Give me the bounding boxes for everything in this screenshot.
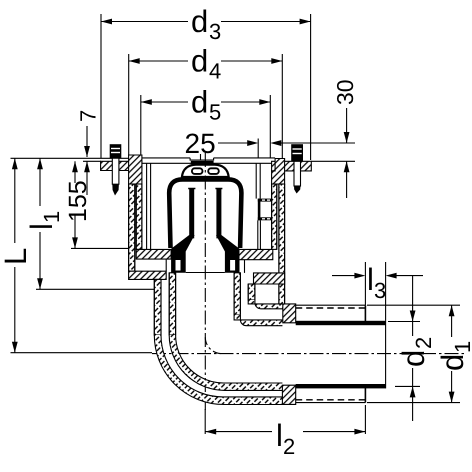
screw right tip — [294, 186, 301, 194]
svg-text:2: 2 — [283, 434, 295, 459]
svg-text:l: l — [24, 223, 59, 230]
dim l1 vertical — [39, 158, 41, 206]
screw left tip — [112, 184, 119, 196]
dim 155 bottom extension — [71, 247, 131, 249]
standpipe left wall — [189, 188, 194, 238]
outlet pipe bottom wall thick — [296, 384, 386, 388]
pot wall right outer channel — [279, 184, 285, 305]
bottom flange left (hatched) — [129, 271, 167, 279]
dim d4 line — [129, 60, 188, 62]
svg-text:4: 4 — [209, 59, 221, 84]
bottom hatch block — [282, 385, 295, 404]
pot wall right skirt channel — [272, 184, 277, 249]
dome base line — [182, 177, 229, 181]
bucket wall right upper — [255, 163, 257, 198]
funnel right black — [216, 235, 240, 273]
label d4 — [191, 44, 221, 84]
dim L bottom extension — [11, 352, 153, 354]
dim d3 line — [101, 21, 188, 23]
bucket wall left — [146, 163, 148, 249]
dim 30 vertical line with outside arrows — [346, 108, 348, 143]
dim d4 extension left — [128, 54, 130, 155]
top reference line — [11, 157, 142, 159]
shelf left (hatched) — [136, 249, 171, 259]
outer tube right wall — [248, 284, 255, 300]
centerline elbow arc — [205, 337, 221, 353]
dim d5 line — [141, 101, 188, 103]
sleeve top wall — [296, 304, 366, 306]
svg-text:2: 2 — [411, 337, 436, 349]
pot wall top left (hatched block) — [129, 155, 142, 184]
svg-text:155: 155 — [64, 180, 92, 222]
label d2 — [396, 337, 436, 367]
screw left shank — [112, 158, 119, 184]
dim 30 label — [332, 79, 358, 105]
screw right head — [291, 144, 303, 161]
bracket right wall — [258, 199, 272, 202]
inner pipe right wall corner — [234, 315, 282, 326]
svg-text:l: l — [276, 418, 283, 453]
svg-text:30: 30 — [332, 79, 358, 105]
top hatch block — [283, 304, 296, 323]
svg-text:l: l — [367, 262, 374, 297]
outer tube left wall — [154, 279, 161, 335]
funnel right notch — [230, 260, 235, 271]
outlet pipe top wall thick — [296, 321, 386, 325]
svg-text:d: d — [191, 44, 208, 79]
label l2 — [276, 418, 295, 459]
label l3 — [367, 262, 386, 303]
bell outer shell — [169, 179, 241, 248]
bell dome cap — [182, 165, 229, 177]
screw left head — [110, 144, 122, 158]
inner tail pipe right wall — [234, 273, 240, 315]
svg-text:7: 7 — [76, 110, 101, 122]
outer shell elbow wall (annulus) — [154, 335, 282, 405]
grate underside line — [142, 162, 272, 164]
funnel left black — [171, 235, 195, 273]
dim d3 extension left — [100, 14, 102, 158]
svg-text:3: 3 — [374, 278, 386, 303]
dim L vertical — [14, 158, 16, 243]
dim 7 line with outside arrows — [86, 126, 88, 157]
sleeve bottom wall — [296, 402, 366, 404]
grate notch center bar — [190, 158, 214, 160]
seat walls below shelf right — [235, 260, 237, 273]
pot wall top right (hatched block) — [272, 159, 285, 185]
flange plate left (hatched) — [101, 161, 142, 170]
inner tail pipe left wall — [169, 273, 175, 335]
shelf right (hatched) — [237, 249, 273, 259]
inner pipe elbow wall (annulus) — [169, 335, 282, 390]
dim l2 line inside arrows — [205, 431, 272, 433]
flange plate right (hatched) — [272, 161, 312, 171]
svg-text:d: d — [191, 4, 208, 39]
standpipe right wall — [216, 188, 221, 238]
bucket wall right lower — [257, 220, 259, 249]
dim l2 extensions — [204, 409, 206, 434]
vertical centerline — [204, 153, 206, 410]
dim d5 extension left — [140, 95, 142, 158]
svg-text:d: d — [435, 354, 470, 371]
outlet top wall B — [248, 300, 283, 309]
funnel left notch — [176, 260, 181, 271]
dim 25 leader to notch — [200, 154, 202, 160]
svg-text:d: d — [191, 85, 208, 120]
svg-text:3: 3 — [209, 19, 221, 44]
dim d3 extension right — [310, 14, 312, 160]
tail pipe seat line — [186, 272, 225, 274]
dim d2 extensions — [388, 321, 420, 323]
dim 155 vertical — [74, 161, 76, 183]
label d1 — [435, 341, 472, 371]
dim l3 extension lines — [364, 262, 366, 305]
dim d2 vertical with outside arrows — [412, 276, 414, 336]
label l1 — [24, 211, 64, 230]
label d3 — [191, 4, 221, 44]
dim 7 label — [76, 110, 101, 122]
horizontal centerline — [152, 353, 467, 355]
svg-text:L: L — [0, 248, 33, 265]
label d5 — [191, 85, 221, 125]
grate top line — [142, 157, 190, 159]
svg-text:1: 1 — [450, 341, 472, 353]
dome slot right — [208, 168, 219, 174]
screw right shank — [294, 161, 301, 186]
seat walls below shelf left — [165, 259, 167, 271]
pot wall left skirt channel — [136, 184, 142, 249]
pipe end edge — [385, 321, 387, 389]
dim d1 vertical inside arrows — [451, 305, 453, 337]
svg-text:d: d — [396, 350, 431, 367]
svg-text:1: 1 — [39, 211, 64, 223]
bottom flange right (hatched) — [254, 273, 285, 284]
dim d1 extensions — [367, 304, 460, 306]
dim d4 extension right — [281, 54, 283, 168]
svg-text:5: 5 — [209, 100, 221, 125]
dim d5 extension right — [269, 95, 271, 158]
pot wall left outer channel — [129, 184, 135, 271]
dim 25 line with outside arrows — [218, 142, 255, 144]
dome slot left — [192, 168, 203, 174]
label 25 — [185, 128, 216, 159]
label 155 — [64, 180, 92, 222]
dim l3 line with outside arrows — [332, 275, 362, 277]
label L — [0, 248, 33, 265]
dim l1 bottom extension — [36, 288, 154, 290]
standpipe top edge caps — [188, 188, 195, 190]
